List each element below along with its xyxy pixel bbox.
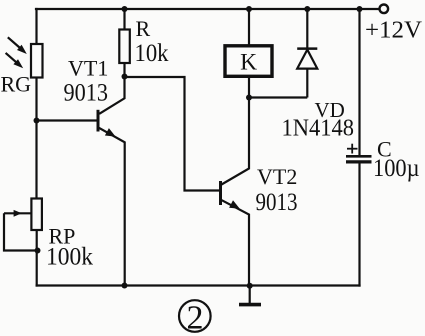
light arrow 1 [8, 37, 27, 54]
potentiometer RP [4, 199, 42, 251]
svg-text:K: K [240, 50, 257, 76]
ground [239, 286, 261, 305]
wire top +12V rail [36, 8, 380, 10]
svg-text:100µ: 100µ [373, 155, 420, 182]
node K bottom / VD anode [246, 95, 252, 101]
wire left rail [35, 9, 37, 44]
svg-text:+12V: +12V [365, 17, 422, 44]
node right rail top [357, 6, 363, 12]
wire coupling R bottom to VT2 base [125, 77, 220, 191]
wire bottom rail [37, 284, 360, 286]
figure number 2 [179, 300, 211, 336]
wire K bottom to VD anode [249, 96, 307, 98]
photoresistor RG [31, 44, 43, 78]
polarity + of C [347, 144, 358, 154]
wire right rail lower [358, 163, 360, 286]
svg-text:R: R [136, 16, 151, 41]
node R top [122, 6, 128, 12]
diode VD [297, 9, 317, 98]
svg-text:100k: 100k [46, 244, 93, 271]
node VT1 base [34, 118, 40, 124]
node K top [246, 6, 252, 12]
svg-text:9013: 9013 [64, 80, 109, 107]
transistor VT1 [98, 77, 125, 286]
svg-text:1N4148: 1N4148 [282, 116, 355, 142]
svg-text:VT2: VT2 [257, 164, 297, 189]
svg-text:10k: 10k [135, 40, 169, 67]
node VD top [304, 6, 310, 12]
wire right rail upper [358, 9, 360, 155]
capacitor C [346, 156, 372, 162]
wire RG bottom to RP top [35, 78, 37, 199]
svg-text:VT1: VT1 [68, 56, 108, 81]
node RP wiper return [35, 248, 41, 254]
transistor VT2 [221, 98, 250, 286]
light arrow 2 [6, 53, 24, 68]
svg-text:RG: RG [1, 72, 32, 97]
node VT1 emitter at bottom rail [122, 283, 128, 289]
wire VT1 base [37, 119, 97, 121]
relay K [225, 9, 272, 98]
resistor R [119, 9, 130, 77]
wire RP bottom to bottom rail [36, 230, 38, 286]
svg-text:9013: 9013 [256, 189, 298, 216]
svg-text:2: 2 [187, 300, 204, 336]
terminal +12V [380, 5, 389, 14]
node VT2 emitter / ground [247, 283, 253, 289]
node R bottom / VT1 collector [122, 74, 128, 80]
